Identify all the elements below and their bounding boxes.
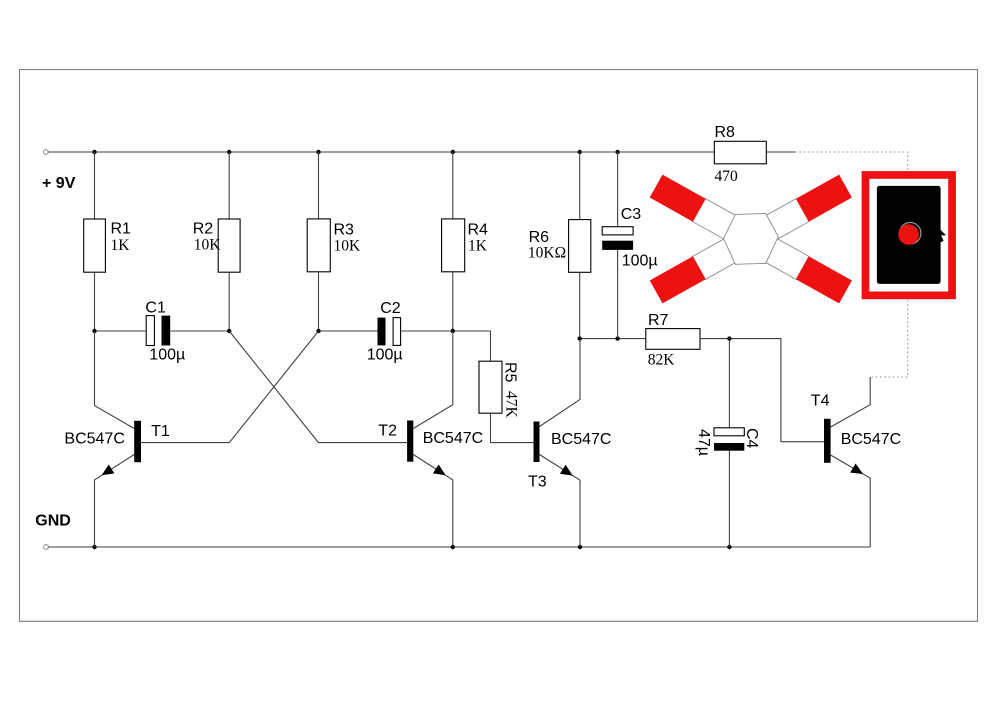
lamp head white inset xyxy=(869,179,948,292)
svg-text:R4: R4 xyxy=(468,222,489,239)
capacitor C4 plate top xyxy=(714,428,744,436)
svg-text:C1: C1 xyxy=(145,300,166,317)
node rail-R4 xyxy=(451,150,455,154)
wire C4 to GND xyxy=(728,451,730,547)
wire rail to C3 xyxy=(617,152,619,227)
node D xyxy=(451,329,455,333)
resistor R1 xyxy=(84,219,106,272)
resistor R4 xyxy=(442,219,465,272)
wire T1 emitter xyxy=(95,455,135,548)
capacitor C4 plate bottom xyxy=(714,443,744,451)
arrow T4 emitter xyxy=(850,464,863,475)
node R6-R7 xyxy=(578,336,582,340)
wire R7 to T4 base xyxy=(700,339,824,442)
svg-text:100µ: 100µ xyxy=(622,253,658,270)
node B xyxy=(227,329,231,333)
wire C3 to R7 rail xyxy=(617,250,619,339)
node rail-R6 xyxy=(578,150,582,154)
crossbuck sign: white arm LR xyxy=(762,237,809,279)
wire T3 collector xyxy=(540,339,581,427)
wire R7 node to C4 xyxy=(728,339,730,428)
wire R6 to R7 rail xyxy=(579,272,581,338)
wire node D to R5 xyxy=(453,331,491,361)
svg-text:470: 470 xyxy=(715,168,739,185)
wire node A to C1 xyxy=(95,330,147,332)
wire +9V rail xyxy=(48,151,714,153)
mouse cursor xyxy=(934,224,946,243)
svg-text:GND: GND xyxy=(35,513,71,530)
svg-text:82K: 82K xyxy=(648,352,676,369)
arrow T1 emitter xyxy=(102,465,115,476)
wire dotted to lamp top xyxy=(795,152,908,170)
wire T4 collector xyxy=(831,377,871,427)
border frame xyxy=(20,70,978,622)
svg-text:+ 9V: + 9V xyxy=(42,175,76,192)
svg-text:BC547C: BC547C xyxy=(841,431,901,448)
crossbuck sign: red arm LR xyxy=(796,256,852,303)
svg-text:1K: 1K xyxy=(111,237,131,254)
svg-text:47K: 47K xyxy=(503,391,520,419)
wire dotted lamp bottom to T4 collector xyxy=(870,300,908,377)
wire T3 emitter xyxy=(540,455,581,548)
svg-text:R2: R2 xyxy=(193,221,214,238)
crossbuck sign: white arm UR xyxy=(762,199,809,241)
resistor R2 xyxy=(218,219,240,272)
node C3-R7 xyxy=(615,336,619,340)
crossbuck sign: centre hexagon xyxy=(724,214,779,265)
svg-text:BC547C: BC547C xyxy=(64,431,124,448)
wire cross-couple B (R2 node to T2 base) xyxy=(229,331,318,443)
node rail-R1 xyxy=(92,150,96,154)
capacitor C1 plate left xyxy=(146,316,154,346)
resistor R8 xyxy=(714,141,766,164)
svg-text:C3: C3 xyxy=(621,206,642,223)
node R7-C4 xyxy=(727,336,731,340)
capacitor C2 plate right xyxy=(393,318,401,346)
svg-text:T2: T2 xyxy=(378,423,397,440)
crossbuck sign: red arm LL xyxy=(650,256,706,303)
svg-text:C2: C2 xyxy=(380,300,401,317)
wire T1 base xyxy=(141,442,229,444)
transistor T1 bar xyxy=(134,421,141,462)
wire rail to R6 xyxy=(579,152,581,220)
wire R3 to node C xyxy=(318,272,320,331)
svg-text:10KΩ: 10KΩ xyxy=(528,245,566,262)
node A xyxy=(92,329,96,333)
wire node C to C2 xyxy=(319,330,378,332)
node rail-C3 xyxy=(615,150,619,154)
lamp head black body xyxy=(877,186,941,284)
lamp lens red xyxy=(898,224,919,245)
svg-text:100µ: 100µ xyxy=(367,347,403,364)
wire C2 to node D xyxy=(401,330,453,332)
wire rail to R4 xyxy=(452,152,454,219)
svg-text:R7: R7 xyxy=(648,312,669,329)
wire T2 emitter xyxy=(413,455,453,548)
lamp lens grey ring xyxy=(900,223,921,244)
svg-text:100µ: 100µ xyxy=(149,347,185,364)
node GND-T2 xyxy=(451,545,455,549)
svg-text:R8: R8 xyxy=(715,124,736,141)
crossbuck sign: red arm UR xyxy=(796,175,852,222)
crossbuck sign: red arm UL xyxy=(650,175,706,222)
wire T2 collector xyxy=(413,331,453,429)
resistor R3 xyxy=(307,219,330,272)
wire C1 to node B xyxy=(170,330,229,332)
wire R6/C3 to R7 xyxy=(580,338,646,340)
GND terminal xyxy=(44,545,49,550)
transistor T3 bar xyxy=(534,422,540,463)
resistor R7 xyxy=(646,329,700,350)
svg-text:10K: 10K xyxy=(194,237,222,254)
wire T1 collector xyxy=(95,331,135,429)
transistor T2 bar xyxy=(407,421,413,462)
wire R2 to node B xyxy=(228,272,230,331)
resistor R6 xyxy=(569,220,591,273)
arrow T3 emitter xyxy=(560,465,573,476)
wire T2 base xyxy=(319,442,408,444)
svg-text:T3: T3 xyxy=(528,474,547,491)
node rail-R2 xyxy=(227,150,231,154)
svg-text:10K: 10K xyxy=(334,238,362,255)
node GND-T3 xyxy=(578,545,582,549)
svg-text:R1: R1 xyxy=(111,221,132,238)
wire cross-couple C (R3 node to T1 base) xyxy=(229,331,318,443)
node GND-T1 xyxy=(92,545,96,549)
node GND-C4 xyxy=(727,545,731,549)
+9V supply terminal xyxy=(43,150,48,155)
capacitor C1 plate right xyxy=(162,316,171,346)
capacitor C3 plate bottom xyxy=(602,241,633,250)
wire R8 right xyxy=(766,151,795,153)
resistor R5 xyxy=(479,361,502,413)
svg-text:C4: C4 xyxy=(743,428,760,449)
svg-text:R6: R6 xyxy=(529,229,550,246)
wire R5 to T3 base xyxy=(491,413,534,442)
wire T4 emitter xyxy=(831,455,871,547)
arrow T2 emitter xyxy=(433,465,446,476)
svg-text:R5: R5 xyxy=(502,362,519,383)
capacitor C3 plate top xyxy=(602,227,633,235)
wire rail to R1 xyxy=(94,152,96,219)
wire GND rail xyxy=(48,546,870,548)
svg-text:47µ: 47µ xyxy=(695,429,712,456)
wire R1 to node A xyxy=(94,272,96,331)
svg-text:T1: T1 xyxy=(151,423,170,440)
svg-text:T4: T4 xyxy=(811,393,830,410)
wire rail to R3 xyxy=(318,152,320,219)
svg-text:1K: 1K xyxy=(468,238,488,255)
svg-text:BC547C: BC547C xyxy=(423,430,483,447)
node rail-R3 xyxy=(316,150,320,154)
capacitor C2 plate left xyxy=(378,318,386,346)
svg-text:R3: R3 xyxy=(334,222,355,239)
wire rail to R2 xyxy=(228,152,230,219)
lamp head red frame xyxy=(862,171,956,299)
wire R4 to node D xyxy=(452,272,454,331)
svg-text:BC547C: BC547C xyxy=(551,431,611,448)
crossbuck sign: white arm LL xyxy=(692,237,739,279)
node C xyxy=(316,329,320,333)
crossbuck sign: white arm UL xyxy=(692,199,739,241)
transistor T4 bar xyxy=(824,419,831,463)
